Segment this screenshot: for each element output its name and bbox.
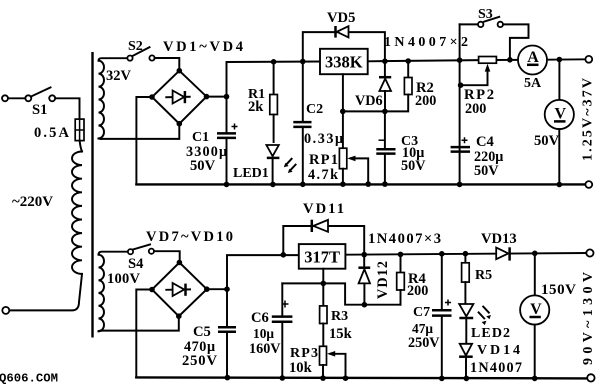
svg-text:0.33μ: 0.33μ: [304, 131, 343, 147]
svg-text:32V: 32V: [106, 68, 132, 84]
svg-text:VD5: VD5: [327, 10, 355, 26]
svg-text:47μ: 47μ: [412, 321, 433, 336]
svg-text:15k: 15k: [329, 326, 353, 342]
svg-text:200: 200: [465, 101, 486, 117]
svg-text:C5: C5: [193, 324, 211, 340]
svg-text:317T: 317T: [304, 247, 340, 266]
svg-text:RP1: RP1: [309, 152, 338, 168]
svg-text:R5: R5: [475, 268, 492, 283]
svg-text:S3: S3: [478, 7, 493, 22]
svg-text:1N4007: 1N4007: [470, 360, 522, 376]
svg-text:150V: 150V: [541, 282, 576, 298]
svg-text:160V: 160V: [249, 341, 281, 357]
svg-text:50V: 50V: [474, 163, 499, 179]
svg-text:VD13: VD13: [481, 231, 517, 247]
svg-text:V: V: [530, 301, 542, 318]
svg-text:VD11: VD11: [303, 201, 344, 217]
svg-text:LED1: LED1: [233, 166, 269, 181]
svg-text:250V: 250V: [408, 335, 440, 351]
svg-text:C7: C7: [413, 305, 430, 320]
svg-text:VD6: VD6: [355, 93, 383, 109]
svg-text:5A: 5A: [524, 76, 542, 91]
svg-text:C2: C2: [306, 102, 323, 117]
svg-text:RP3: RP3: [290, 346, 318, 361]
svg-text:4.7k: 4.7k: [308, 167, 338, 183]
svg-text:0.5A: 0.5A: [34, 125, 70, 141]
svg-text:50V: 50V: [401, 158, 426, 174]
svg-text:VD12: VD12: [375, 261, 391, 299]
svg-text:S2: S2: [128, 39, 143, 54]
svg-text:S1: S1: [32, 102, 47, 118]
svg-text:50V: 50V: [534, 133, 560, 149]
svg-text:Q606.COM: Q606.COM: [0, 372, 58, 385]
svg-text:1N4007×3: 1N4007×3: [368, 231, 441, 247]
svg-text:R3: R3: [331, 309, 348, 324]
svg-text:10μ: 10μ: [253, 326, 274, 341]
svg-text:1.25V~37V: 1.25V~37V: [581, 78, 596, 161]
svg-text:250V: 250V: [182, 353, 217, 369]
svg-text:200: 200: [407, 283, 428, 299]
svg-text:C1: C1: [192, 130, 209, 145]
svg-text:C4: C4: [476, 134, 495, 150]
svg-text:VD14: VD14: [477, 343, 520, 358]
svg-text:C6: C6: [251, 310, 269, 326]
svg-text:LED2: LED2: [471, 326, 510, 341]
svg-text:200: 200: [415, 93, 436, 109]
svg-text:~220V: ~220V: [12, 194, 53, 210]
svg-text:10k: 10k: [289, 360, 313, 376]
svg-text:S4: S4: [128, 256, 144, 272]
svg-text:2k: 2k: [248, 99, 264, 115]
svg-text:V: V: [555, 105, 567, 122]
svg-text:338K: 338K: [325, 53, 363, 72]
svg-text:100V: 100V: [107, 271, 141, 287]
svg-text:50V: 50V: [190, 158, 216, 174]
